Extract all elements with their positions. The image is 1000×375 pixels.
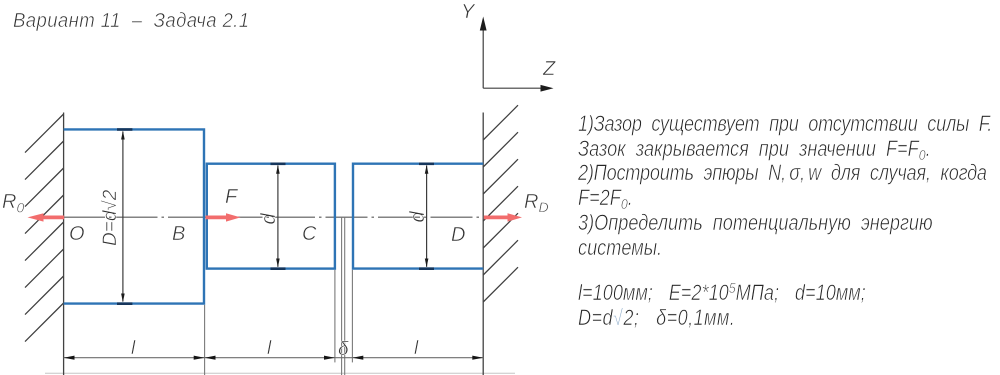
svg-text:l: l <box>267 338 272 359</box>
svg-text:Z: Z <box>542 58 556 80</box>
svg-text:O: O <box>69 223 85 245</box>
svg-text:Y: Y <box>461 1 476 23</box>
svg-text:RD: RD <box>524 191 549 215</box>
svg-text:d: d <box>407 211 429 223</box>
svg-text:B: B <box>172 223 185 245</box>
svg-text:D: D <box>451 224 465 246</box>
svg-text:l: l <box>131 338 136 359</box>
svg-text:D=d√2: D=d√2 <box>100 189 121 246</box>
svg-text:R0: R0 <box>2 191 24 216</box>
svg-text:l: l <box>414 338 419 359</box>
svg-text:C: C <box>302 223 317 245</box>
svg-text:F: F <box>225 186 239 208</box>
svg-text:d: d <box>258 213 280 225</box>
svg-text:δ: δ <box>338 339 349 360</box>
